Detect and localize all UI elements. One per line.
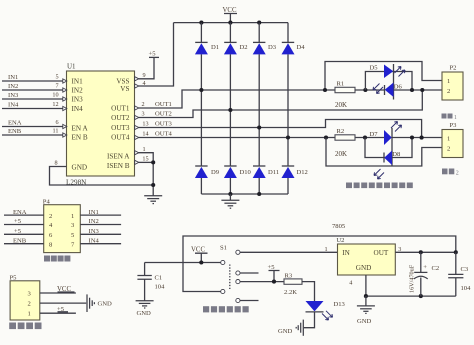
svg-text:20K: 20K	[335, 150, 347, 158]
wire S1 throw1 to U2 IN	[240, 251, 338, 253]
LED D8	[384, 151, 401, 166]
wire P4 +5 (a)	[4, 218, 44, 225]
svg-text:OUT: OUT	[374, 249, 389, 257]
node rail col2 VCC stem	[228, 21, 232, 25]
ground symbol sideways at P5	[87, 294, 112, 312]
svg-text:104: 104	[461, 285, 472, 292]
svg-text:OUT2: OUT2	[155, 111, 172, 118]
regulator U2 7805	[332, 223, 395, 275]
svg-text:C1: C1	[155, 275, 163, 282]
svg-text:IN3: IN3	[8, 92, 19, 99]
svg-text:2: 2	[447, 88, 450, 95]
resistor R3	[284, 273, 302, 297]
wire block2 OUT4 to R2 continues	[335, 137, 442, 139]
node GND junction	[151, 183, 155, 187]
svg-text:10: 10	[52, 92, 58, 99]
svg-text:VCC: VCC	[191, 247, 205, 254]
wire ENA input stub	[2, 119, 63, 126]
wire P4 ENA	[4, 209, 44, 216]
power symbol +5 (VSS)	[149, 51, 160, 58]
svg-text:IN4: IN4	[89, 237, 100, 244]
svg-text:+5: +5	[14, 218, 22, 225]
svg-text:R1: R1	[337, 81, 345, 88]
pin arrow ISEN B	[135, 160, 139, 164]
svg-text:+: +	[423, 264, 427, 271]
LED D7 arrows	[391, 122, 402, 132]
diode D11	[253, 166, 279, 178]
wire P5 pin3 VCC	[40, 286, 76, 293]
svg-text:GND: GND	[356, 264, 372, 272]
svg-text:OUT2: OUT2	[111, 114, 130, 122]
svg-text:D7: D7	[370, 131, 379, 138]
svg-text:P4: P4	[43, 198, 51, 205]
wire OUT3 pin 13	[138, 120, 421, 138]
svg-text:2.2K: 2.2K	[284, 289, 297, 296]
wire diode column 1	[200, 23, 202, 194]
pin arrow OUT3	[135, 125, 139, 129]
label motor direction indicator text	[346, 183, 413, 189]
svg-text:D10: D10	[240, 169, 252, 176]
label motor control text	[44, 256, 70, 262]
wire bypass top rail from switch to 5V node	[183, 236, 456, 292]
svg-text:OUT1: OUT1	[155, 101, 172, 108]
svg-text:1: 1	[71, 213, 74, 220]
ground symbol below ISEN	[144, 196, 162, 204]
node C2 bottom	[419, 294, 423, 298]
svg-text:1: 1	[447, 136, 450, 143]
svg-text:1: 1	[142, 146, 145, 153]
svg-text:1: 1	[28, 311, 31, 318]
wire S1 throw to R3	[240, 281, 284, 283]
node OUT3 col3	[257, 125, 261, 129]
power symbol VCC at C1	[191, 247, 208, 263]
node block1 R1 left	[323, 88, 327, 92]
svg-text:R2: R2	[337, 128, 345, 135]
capacitor C3	[448, 252, 471, 296]
wire VSS pin 9 to +5	[138, 57, 154, 79]
svg-text:S1: S1	[220, 245, 227, 252]
wire OUT1 pin 2	[138, 90, 335, 108]
capacitor C2 polarized	[409, 252, 440, 296]
wire IN3 input stub	[2, 92, 63, 99]
svg-text:C2: C2	[432, 265, 440, 272]
svg-text:2: 2	[28, 301, 31, 308]
svg-text:7805: 7805	[332, 223, 346, 230]
svg-text:D1: D1	[211, 44, 219, 51]
wire diode column 4	[287, 23, 289, 194]
svg-text:IN2: IN2	[89, 218, 99, 225]
svg-text:GND: GND	[72, 164, 88, 172]
node C2 top	[419, 250, 423, 254]
svg-text:1: 1	[454, 115, 457, 121]
node P3 pin1 junction	[420, 136, 424, 140]
svg-text:ENA: ENA	[8, 120, 22, 127]
wire U2 OUT pin3	[395, 246, 456, 253]
svg-text:2: 2	[447, 146, 450, 153]
svg-text:11: 11	[53, 128, 59, 135]
wire S1 throw stub lower	[240, 300, 259, 302]
node D7 right	[410, 135, 414, 139]
wire R3 to D13	[302, 282, 315, 301]
resistor R2	[335, 128, 355, 158]
connector P2	[442, 65, 463, 101]
wire R1 to LED pair	[355, 89, 442, 91]
node C3 top	[454, 250, 458, 254]
svg-text:D9: D9	[211, 169, 220, 176]
svg-text:8: 8	[54, 160, 57, 167]
svg-text:20K: 20K	[335, 101, 347, 109]
LED D7	[370, 128, 393, 166]
pin arrow IN3	[63, 97, 67, 101]
diode D9	[195, 166, 220, 178]
wire P4 IN3	[80, 228, 121, 235]
diode D2	[224, 42, 248, 54]
svg-text:2: 2	[49, 213, 52, 220]
pin arrow IN2	[63, 88, 67, 92]
ground symbol below U2	[357, 296, 375, 325]
power symbol VCC top	[223, 7, 238, 23]
svg-text:U1: U1	[67, 63, 76, 71]
svg-text:D3: D3	[268, 44, 277, 51]
LED D6 arrows	[373, 84, 383, 94]
svg-text:EN A: EN A	[72, 125, 89, 133]
wire bottom diode rail	[201, 193, 288, 195]
ground symbol sideways at D13	[278, 320, 303, 336]
wire P4 ENB	[4, 237, 44, 244]
label motor1	[442, 114, 458, 121]
node block2 left vertical junction	[324, 135, 328, 139]
svg-text:15: 15	[142, 155, 148, 162]
diode D12	[282, 166, 308, 178]
connector P4	[43, 198, 81, 252]
LED D6	[385, 83, 403, 98]
wire VCC top rail	[174, 22, 289, 24]
svg-text:IN3: IN3	[72, 96, 84, 104]
svg-text:3: 3	[398, 246, 401, 253]
wire U2 GND pin4	[349, 275, 366, 296]
svg-text:ISEN A: ISEN A	[107, 152, 130, 160]
wire block1 inner loop top branch	[365, 72, 412, 91]
pin arrow VS	[135, 84, 139, 88]
svg-text:D5: D5	[370, 65, 379, 72]
node D7 left	[363, 135, 367, 139]
svg-text:IN4: IN4	[8, 102, 19, 109]
diode D3	[253, 42, 277, 54]
svg-text:GND: GND	[98, 301, 113, 308]
pin arrow ISEN A	[135, 151, 139, 155]
wire block2 inner loop bottom branch	[365, 138, 412, 158]
pin arrow IN1	[63, 79, 67, 83]
svg-text:OUT3: OUT3	[111, 124, 130, 132]
wire P5 pin1 +5	[40, 306, 76, 313]
svg-text:IN4: IN4	[72, 105, 84, 113]
LED D13	[306, 301, 346, 312]
pin arrow ENA	[63, 124, 67, 128]
capacitor C1	[137, 263, 165, 301]
wire D13 cathode to ground	[304, 312, 315, 328]
svg-text:3: 3	[141, 110, 144, 117]
wire P4 IN1	[80, 209, 121, 216]
label motor2	[442, 169, 459, 177]
diode D4	[282, 42, 306, 54]
node P2 pin2 junction	[420, 88, 424, 92]
wire block2 outer bottom OUT4 to P3 pin2	[326, 138, 442, 167]
wire diode column 3	[258, 23, 260, 194]
node D6 left	[363, 88, 367, 92]
node bottom rail col2	[228, 192, 232, 196]
op-amp U1 L298N IC body	[66, 63, 135, 187]
node R3 +5 junction	[272, 280, 276, 284]
svg-text:1: 1	[447, 78, 450, 85]
node OUT1 col1	[199, 88, 203, 92]
svg-text:P3: P3	[450, 122, 458, 129]
wire ENB input stub	[2, 128, 63, 135]
wire OUT4 pin 14	[138, 130, 335, 137]
svg-text:2: 2	[456, 171, 459, 177]
wire IN1 input stub	[2, 74, 63, 81]
wire GND pin 8 to ground net	[50, 160, 154, 186]
svg-text:ENB: ENB	[13, 237, 27, 244]
svg-text:P2: P2	[450, 65, 457, 72]
label power select switch text	[203, 306, 249, 312]
diode D1	[195, 42, 219, 54]
ground symbol below C1	[136, 301, 154, 317]
svg-text:IN1: IN1	[72, 78, 84, 86]
svg-text:VS: VS	[120, 85, 129, 93]
connector P3	[442, 122, 463, 158]
svg-text:9: 9	[142, 72, 145, 79]
svg-text:EN B: EN B	[72, 133, 88, 141]
pin arrow VSS	[135, 77, 139, 81]
wire P4 IN2	[80, 218, 121, 225]
svg-text:7: 7	[55, 83, 58, 90]
svg-text:P5: P5	[10, 274, 18, 281]
wire IN4 input stub	[2, 101, 63, 108]
node VCC tap	[199, 260, 203, 264]
svg-text:IN1: IN1	[8, 74, 18, 81]
svg-text:GND: GND	[357, 318, 372, 325]
svg-text:D4: D4	[297, 44, 306, 51]
svg-text:+5: +5	[149, 51, 157, 58]
wire block1 outer loop OUT1 to P2 pin1	[325, 62, 442, 91]
diode D10	[224, 166, 252, 178]
LED D5	[370, 64, 394, 100]
svg-text:+5: +5	[14, 228, 22, 235]
LED D5 arrows	[395, 67, 406, 77]
wire VCC feed to switch pole A	[145, 262, 221, 264]
svg-text:IN2: IN2	[8, 83, 18, 90]
svg-text:D11: D11	[268, 169, 279, 176]
svg-text:12: 12	[52, 101, 58, 108]
svg-text:GND: GND	[278, 328, 293, 335]
node rail col1	[199, 21, 203, 25]
node D6 right	[410, 88, 414, 92]
connector P5	[10, 274, 40, 320]
node OUT4 col4	[286, 135, 290, 139]
wire diode column 2	[229, 23, 231, 194]
wire ISEN B pin 15	[138, 155, 153, 162]
svg-text:4: 4	[349, 280, 352, 287]
svg-text:C3: C3	[461, 266, 469, 273]
svg-text:14: 14	[142, 130, 148, 137]
svg-text:16V/470uF: 16V/470uF	[409, 264, 416, 293]
svg-text:OUT1: OUT1	[111, 105, 130, 113]
wire S1 throw stub upper	[240, 272, 259, 274]
pin arrow OUT4	[135, 135, 139, 139]
svg-text:OUT4: OUT4	[111, 133, 130, 141]
svg-text:IN2: IN2	[72, 87, 84, 95]
pin arrow OUT1	[135, 106, 139, 110]
node bottom rail col3	[257, 192, 261, 196]
wire ground rail under U2	[366, 295, 456, 297]
wire P5 pin2 to ground	[40, 302, 86, 304]
svg-text:IN: IN	[342, 249, 350, 257]
svg-text:ENB: ENB	[8, 128, 22, 135]
pin arrow ENB	[63, 133, 67, 137]
svg-text:D2: D2	[240, 44, 248, 51]
svg-text:OUT4: OUT4	[155, 131, 173, 138]
node rail col3	[257, 21, 261, 25]
wire VS pin 4 riser to VCC rail	[138, 23, 173, 87]
svg-text:D6: D6	[394, 84, 403, 91]
node ISEN junction	[151, 160, 155, 164]
wire P4 IN4	[80, 237, 121, 244]
ground symbol bottom rail	[221, 194, 239, 208]
LED D8 arrows	[374, 169, 384, 179]
svg-text:ENA: ENA	[13, 209, 27, 216]
resistor R1	[335, 81, 355, 110]
power symbol +5 at R3	[268, 264, 280, 282]
svg-text:D12: D12	[297, 169, 308, 176]
svg-text:104: 104	[155, 284, 166, 291]
wire ISEN A pin 1	[138, 146, 153, 196]
svg-text:OUT3: OUT3	[155, 121, 173, 128]
pin arrow IN4	[63, 106, 67, 110]
svg-text:U2: U2	[336, 237, 344, 244]
svg-text:+5: +5	[268, 264, 276, 271]
svg-text:D8: D8	[392, 151, 401, 158]
wire OUT2 pin 3	[138, 90, 422, 118]
svg-text:R3: R3	[285, 273, 293, 280]
svg-text:IN1: IN1	[89, 209, 99, 216]
svg-text:D13: D13	[334, 301, 346, 308]
switch S1	[220, 245, 240, 303]
svg-text:IN3: IN3	[89, 228, 100, 235]
svg-text:13: 13	[142, 120, 148, 127]
pin arrow OUT2	[135, 115, 139, 119]
svg-text:1: 1	[324, 246, 327, 253]
svg-text:6: 6	[55, 119, 58, 126]
svg-text:VCC: VCC	[223, 7, 237, 14]
svg-text:ISEN B: ISEN B	[107, 162, 130, 170]
wire IN2 input stub	[2, 83, 63, 90]
svg-text:2: 2	[141, 101, 144, 108]
LED D13 arrows	[322, 311, 333, 320]
node OUT2 col2	[228, 108, 232, 112]
wire P4 +5 (b)	[4, 228, 44, 235]
svg-text:GND: GND	[137, 310, 152, 317]
svg-text:5: 5	[55, 74, 58, 81]
node U2 gnd rail	[364, 294, 368, 298]
label system power text	[9, 323, 41, 330]
svg-text:4: 4	[142, 80, 145, 87]
